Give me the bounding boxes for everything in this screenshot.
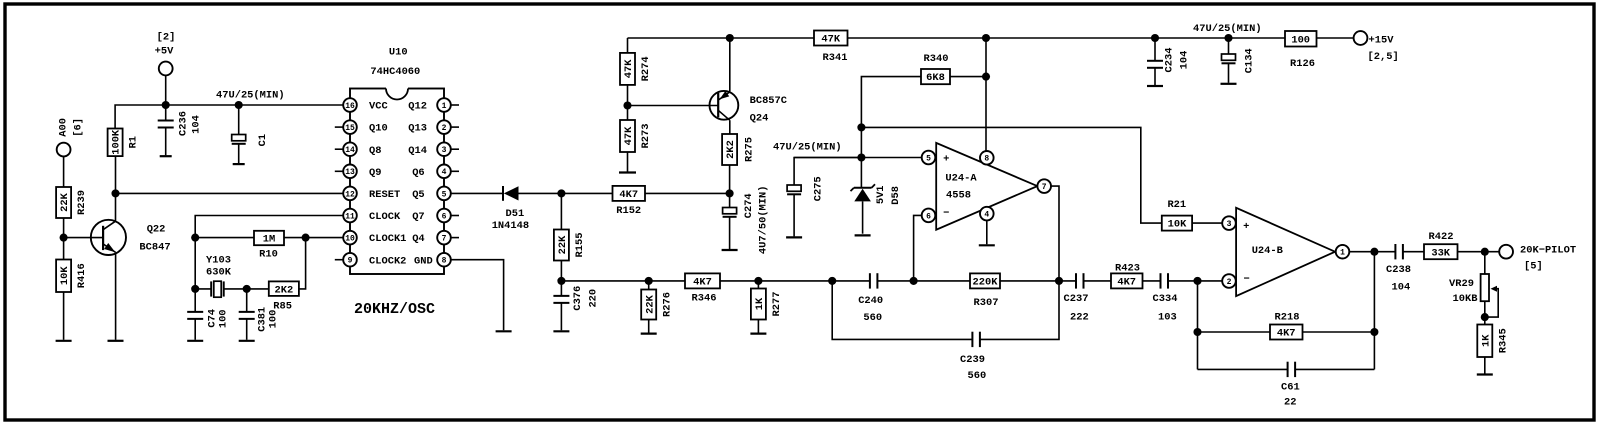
svg-text:+: + xyxy=(943,153,949,165)
svg-text:100: 100 xyxy=(267,310,279,329)
wire xyxy=(64,237,103,239)
svg-text:[6]: [6] xyxy=(73,118,85,137)
capacitor C274 4U7/50(MIN) xyxy=(723,208,737,214)
resistor R218 4K7 xyxy=(1270,325,1303,340)
pin 4 Q6 xyxy=(451,170,459,172)
ground xyxy=(108,340,124,342)
capacitor C1 xyxy=(232,135,246,141)
svg-text:Q5: Q5 xyxy=(412,189,424,201)
svg-text:74HC4060: 74HC4060 xyxy=(370,66,420,78)
wire xyxy=(877,280,970,282)
svg-text:8: 8 xyxy=(442,257,447,266)
svg-text:22: 22 xyxy=(1284,397,1296,409)
svg-text:103: 103 xyxy=(1158,312,1177,324)
wire xyxy=(115,193,117,221)
svg-text:C1: C1 xyxy=(257,134,269,146)
svg-text:22K: 22K xyxy=(557,235,569,254)
svg-text:Q6: Q6 xyxy=(412,167,424,179)
wire xyxy=(1198,331,1271,333)
pin 16 VCC xyxy=(343,98,357,112)
ground xyxy=(722,249,738,251)
svg-text:47U/25(MIN): 47U/25(MIN) xyxy=(773,142,842,154)
pin 3 xyxy=(1222,216,1236,230)
resistor R239 xyxy=(56,187,71,218)
svg-text:5: 5 xyxy=(442,190,447,199)
wire xyxy=(627,85,629,106)
svg-text:4: 4 xyxy=(984,211,989,220)
wire xyxy=(165,128,167,156)
capacitor C275 xyxy=(787,185,801,191)
svg-text:6: 6 xyxy=(926,212,931,221)
wire xyxy=(1228,63,1230,83)
wire xyxy=(627,106,629,121)
wire xyxy=(794,158,861,186)
svg-text:2K2: 2K2 xyxy=(274,284,293,296)
ground xyxy=(979,244,995,246)
svg-text:10K: 10K xyxy=(1168,219,1187,231)
wire xyxy=(729,120,731,134)
wire xyxy=(284,237,343,239)
pin 2 Q13 xyxy=(451,126,459,128)
ground xyxy=(239,340,255,342)
node xyxy=(1481,248,1489,256)
ground xyxy=(855,234,871,236)
wire xyxy=(1143,280,1161,282)
svg-text:Q10: Q10 xyxy=(369,123,388,135)
svg-text:VCC: VCC xyxy=(369,101,388,113)
svg-text:R277: R277 xyxy=(771,292,783,317)
svg-text:20K−PILOT: 20K−PILOT xyxy=(1520,244,1576,256)
ground xyxy=(1477,373,1493,375)
op-amp U24-B xyxy=(1236,208,1335,296)
resistor R423 4K7 xyxy=(1111,273,1143,288)
svg-text:9: 9 xyxy=(348,257,353,266)
svg-text:BC857C: BC857C xyxy=(750,95,787,107)
capacitor C239 560 loop xyxy=(832,281,972,340)
svg-text:4K7: 4K7 xyxy=(693,277,712,289)
node xyxy=(623,101,631,109)
svg-text:4K7: 4K7 xyxy=(1117,277,1136,289)
svg-text:R307: R307 xyxy=(974,297,999,309)
wire xyxy=(561,192,612,194)
svg-text:CLOCK2: CLOCK2 xyxy=(369,255,406,267)
pin 1 Q12 xyxy=(451,104,459,106)
wire xyxy=(861,77,921,158)
svg-text:12: 12 xyxy=(345,190,355,199)
pin 15 Q10 xyxy=(335,126,343,128)
wire xyxy=(1228,38,1230,54)
resistor R152 4K7 xyxy=(613,186,646,201)
svg-text:RESET: RESET xyxy=(369,189,400,201)
svg-text:A00: A00 xyxy=(58,118,70,137)
svg-text:+: + xyxy=(1243,221,1249,233)
ground xyxy=(553,330,569,332)
svg-text:R346: R346 xyxy=(692,293,717,305)
terminal +15V [2,5] xyxy=(1354,31,1368,45)
svg-text:Q12: Q12 xyxy=(408,101,427,113)
wire xyxy=(115,252,117,339)
wire xyxy=(224,288,247,290)
wire xyxy=(1198,368,1288,370)
wire xyxy=(729,217,731,249)
ground xyxy=(619,171,636,173)
wire xyxy=(757,281,759,289)
svg-text:BC847: BC847 xyxy=(139,241,170,253)
pin 6 Q7 xyxy=(451,215,459,217)
node xyxy=(645,277,653,285)
svg-text:1K: 1K xyxy=(1480,334,1492,347)
wire xyxy=(1374,251,1395,253)
svg-text:47K: 47K xyxy=(623,126,635,145)
wire xyxy=(116,192,344,194)
svg-text:20KHZ/OSC: 20KHZ/OSC xyxy=(354,301,435,318)
svg-text:4558: 4558 xyxy=(946,189,971,201)
svg-text:Q24: Q24 xyxy=(750,112,769,124)
svg-text:15: 15 xyxy=(345,124,355,133)
svg-text:R152: R152 xyxy=(616,205,641,217)
node xyxy=(828,277,836,285)
svg-text:104: 104 xyxy=(190,115,202,134)
wire xyxy=(299,238,306,289)
svg-text:4U7/50(MIN): 4U7/50(MIN) xyxy=(758,186,770,255)
svg-text:C134: C134 xyxy=(1243,48,1255,73)
svg-text:1K: 1K xyxy=(754,297,766,310)
node xyxy=(726,34,734,42)
pin 8 GND xyxy=(437,253,451,267)
svg-text:C234: C234 xyxy=(1163,48,1175,73)
capacitor C74 100 xyxy=(187,311,203,313)
capacitor C334 103 xyxy=(1160,273,1162,288)
svg-text:Q22: Q22 xyxy=(147,224,166,236)
svg-text:C275: C275 xyxy=(812,176,824,201)
wire xyxy=(1000,280,1076,282)
svg-text:R10: R10 xyxy=(259,249,278,261)
capacitor C376 220 xyxy=(553,295,569,297)
wire xyxy=(1295,368,1374,370)
resistor R277 xyxy=(751,289,766,320)
wire xyxy=(914,215,922,281)
svg-text:47K: 47K xyxy=(821,34,840,46)
resistor R275 xyxy=(722,134,737,165)
svg-text:47U/25(MIN): 47U/25(MIN) xyxy=(216,90,285,102)
pin 11 CLOCK xyxy=(343,209,357,223)
wire xyxy=(561,280,870,282)
svg-text:1: 1 xyxy=(442,102,447,111)
svg-text:222: 222 xyxy=(1070,312,1089,324)
node xyxy=(111,189,119,197)
resistor R274 xyxy=(620,53,635,85)
ground xyxy=(56,340,72,342)
wire xyxy=(1084,280,1112,282)
svg-text:R341: R341 xyxy=(823,52,848,64)
wire xyxy=(648,281,650,290)
transistor Q22 BC847 xyxy=(91,220,126,255)
svg-text:C376: C376 xyxy=(572,286,584,311)
wire xyxy=(628,37,815,39)
svg-text:C334: C334 xyxy=(1153,293,1178,305)
svg-text:22K: 22K xyxy=(644,294,656,313)
wire xyxy=(1168,280,1222,282)
pin 3 Q14 xyxy=(451,148,459,150)
resistor R155 xyxy=(554,230,569,261)
capacitor C237 222 xyxy=(1075,273,1077,288)
node xyxy=(191,285,199,293)
svg-text:[2,5]: [2,5] xyxy=(1368,51,1399,63)
ground xyxy=(496,330,512,332)
svg-text:Q8: Q8 xyxy=(369,145,381,157)
wire xyxy=(1197,281,1199,370)
ground xyxy=(1221,83,1237,85)
svg-text:2: 2 xyxy=(1227,278,1232,287)
capacitor C61 22 xyxy=(1287,362,1289,377)
svg-text:2K2: 2K2 xyxy=(725,140,737,159)
wire xyxy=(1154,38,1156,61)
wire xyxy=(986,220,988,244)
wire xyxy=(115,129,117,194)
svg-text:VR29: VR29 xyxy=(1449,278,1474,290)
transistor Q24 BC857C xyxy=(710,91,739,120)
terminal +5V [2] xyxy=(159,62,173,76)
capacitor C236 104 xyxy=(158,120,174,122)
svg-text:U10: U10 xyxy=(389,47,408,59)
wire xyxy=(729,165,731,193)
svg-text:14: 14 xyxy=(345,146,355,155)
node xyxy=(1055,277,1063,285)
wire xyxy=(519,192,562,194)
svg-text:100: 100 xyxy=(1291,34,1310,46)
wire xyxy=(63,292,65,340)
node xyxy=(857,123,865,131)
wire xyxy=(648,320,650,333)
wire xyxy=(793,194,795,236)
resistor R345 xyxy=(1477,325,1492,358)
wire xyxy=(195,216,343,238)
pin 9 CLOCK2 xyxy=(335,259,343,261)
svg-text:22K: 22K xyxy=(59,192,71,211)
resistor R1 xyxy=(108,129,123,157)
svg-text:R276: R276 xyxy=(661,292,673,317)
svg-text:13: 13 xyxy=(345,168,355,177)
node xyxy=(1193,277,1201,285)
wire xyxy=(246,289,248,312)
ground xyxy=(786,236,802,238)
svg-text:220: 220 xyxy=(588,289,600,308)
wire xyxy=(627,152,629,172)
wire xyxy=(560,261,562,281)
resistor R422 33K xyxy=(1424,244,1458,259)
wire xyxy=(194,238,196,289)
svg-text:2: 2 xyxy=(442,124,447,133)
svg-text:R218: R218 xyxy=(1275,312,1300,324)
svg-text:+5V: +5V xyxy=(155,45,174,57)
node xyxy=(1224,34,1232,42)
node xyxy=(857,153,865,161)
wire xyxy=(627,38,629,53)
pin 12 RESET xyxy=(343,187,357,201)
svg-text:11: 11 xyxy=(345,212,355,221)
svg-text:8: 8 xyxy=(984,155,989,164)
potentiometer VR29 10KB xyxy=(1481,274,1489,301)
zener diode D58 5V1 xyxy=(860,158,862,188)
pin 14 Q8 xyxy=(335,148,343,150)
svg-text:Y103: Y103 xyxy=(206,254,231,266)
wire xyxy=(194,319,196,340)
svg-text:5: 5 xyxy=(926,154,931,163)
svg-text:10K: 10K xyxy=(59,266,71,285)
node xyxy=(982,73,990,81)
svg-text:1N4148: 1N4148 xyxy=(492,220,529,232)
svg-text:104: 104 xyxy=(1178,51,1190,70)
svg-text:CLOCK1: CLOCK1 xyxy=(369,233,406,245)
wire xyxy=(1403,251,1424,253)
svg-text:100K: 100K xyxy=(111,129,123,155)
diode D51 1N4148 xyxy=(502,186,504,201)
wire xyxy=(980,281,1059,340)
resistor R341 47K xyxy=(814,31,848,46)
capacitor C240 560 xyxy=(869,273,871,288)
wire xyxy=(1484,301,1486,324)
svg-text:Q9: Q9 xyxy=(369,167,381,179)
svg-text:[2]: [2] xyxy=(157,31,176,43)
pin 13 Q9 xyxy=(335,170,343,172)
svg-text:47K: 47K xyxy=(623,59,635,78)
IC U10 74HC4060 xyxy=(350,89,444,275)
svg-text:33K: 33K xyxy=(1431,247,1450,259)
capacitor C239 xyxy=(971,332,973,347)
node xyxy=(191,234,199,242)
ground xyxy=(1147,85,1163,87)
wire xyxy=(1051,186,1059,281)
svg-text:CLOCK: CLOCK xyxy=(369,211,401,223)
svg-text:C61: C61 xyxy=(1281,382,1300,394)
capacitor C238 104 xyxy=(1394,244,1396,259)
pin 7 Q4 xyxy=(451,237,459,239)
wire xyxy=(645,192,730,194)
node xyxy=(235,101,243,109)
svg-text:R275: R275 xyxy=(744,137,756,162)
wire xyxy=(1349,251,1374,253)
wire xyxy=(1458,251,1500,253)
svg-text:100: 100 xyxy=(217,309,229,328)
node xyxy=(1151,34,1159,42)
svg-text:R422: R422 xyxy=(1429,231,1454,243)
wire xyxy=(238,144,240,163)
resistor R276 xyxy=(641,290,656,320)
svg-text:C238: C238 xyxy=(1386,264,1411,276)
op-amp U24-A 4558 xyxy=(936,143,1037,230)
pin 7 xyxy=(1037,179,1051,193)
wire xyxy=(63,218,65,238)
svg-text:C236: C236 xyxy=(177,111,189,136)
node xyxy=(557,189,565,197)
wire xyxy=(246,319,248,340)
svg-text:R126: R126 xyxy=(1290,58,1315,70)
svg-text:Q7: Q7 xyxy=(412,211,424,223)
resistor R273 xyxy=(620,120,635,152)
node xyxy=(557,277,565,285)
node xyxy=(243,285,251,293)
svg-text:R423: R423 xyxy=(1115,263,1140,275)
resistor R340 6K8 xyxy=(921,69,950,84)
svg-text:1M: 1M xyxy=(263,234,275,246)
pin 5 Q5 xyxy=(437,187,451,201)
svg-text:6K8: 6K8 xyxy=(926,72,945,84)
svg-text:104: 104 xyxy=(1392,282,1411,294)
svg-text:D58: D58 xyxy=(890,186,902,205)
wire xyxy=(63,238,65,260)
svg-text:3: 3 xyxy=(442,146,447,155)
wire xyxy=(729,193,731,207)
node xyxy=(1481,313,1489,321)
capacitor C381 100 xyxy=(239,311,255,313)
node xyxy=(910,277,918,285)
ground xyxy=(187,340,203,342)
pin 6 xyxy=(922,209,936,223)
resistor R416 xyxy=(56,260,71,293)
wire xyxy=(560,303,562,330)
pin 2 xyxy=(1222,274,1236,288)
svg-text:GND: GND xyxy=(414,255,433,267)
ground xyxy=(750,333,766,335)
svg-text:R21: R21 xyxy=(1167,199,1186,211)
node xyxy=(726,189,734,197)
pin 8 xyxy=(980,151,994,165)
svg-text:4K7: 4K7 xyxy=(1277,328,1296,340)
node xyxy=(1370,328,1378,336)
wire xyxy=(451,192,503,194)
resistor R21 10K xyxy=(1162,216,1192,231)
svg-text:16: 16 xyxy=(345,102,355,111)
resistor R85 2K2 xyxy=(269,281,299,296)
wire xyxy=(848,37,1354,39)
svg-text:R273: R273 xyxy=(640,124,652,149)
node xyxy=(302,234,310,242)
wire xyxy=(165,75,167,105)
pin 5 xyxy=(922,151,936,165)
svg-text:10: 10 xyxy=(345,235,355,244)
wire xyxy=(238,105,240,135)
ground xyxy=(641,333,657,335)
wire xyxy=(757,320,759,333)
svg-text:630K: 630K xyxy=(206,266,232,278)
svg-text:+15V: +15V xyxy=(1369,35,1395,47)
wire xyxy=(560,193,562,229)
wire xyxy=(1373,252,1375,370)
svg-text:560: 560 xyxy=(968,370,987,382)
svg-text:−: − xyxy=(1243,274,1249,286)
svg-text:U24-B: U24-B xyxy=(1252,245,1284,257)
wire xyxy=(1154,68,1156,85)
svg-text:R1: R1 xyxy=(128,136,140,148)
svg-text:1: 1 xyxy=(1340,249,1345,258)
svg-text:6: 6 xyxy=(442,212,447,221)
svg-text:R274: R274 xyxy=(640,56,652,81)
svg-text:3: 3 xyxy=(1227,220,1232,229)
svg-text:C237: C237 xyxy=(1064,293,1089,305)
wire xyxy=(451,260,504,331)
wire xyxy=(1192,222,1222,224)
wire xyxy=(1484,357,1486,374)
resistor R10 1M xyxy=(254,231,284,245)
resistor R346 4K7 xyxy=(685,273,720,288)
pin 1 xyxy=(1336,245,1350,259)
node xyxy=(60,234,68,242)
svg-text:10KB: 10KB xyxy=(1453,293,1479,305)
wire xyxy=(985,38,987,151)
wire xyxy=(247,288,269,290)
svg-text:−: − xyxy=(943,208,949,220)
svg-text:Q13: Q13 xyxy=(408,123,427,135)
